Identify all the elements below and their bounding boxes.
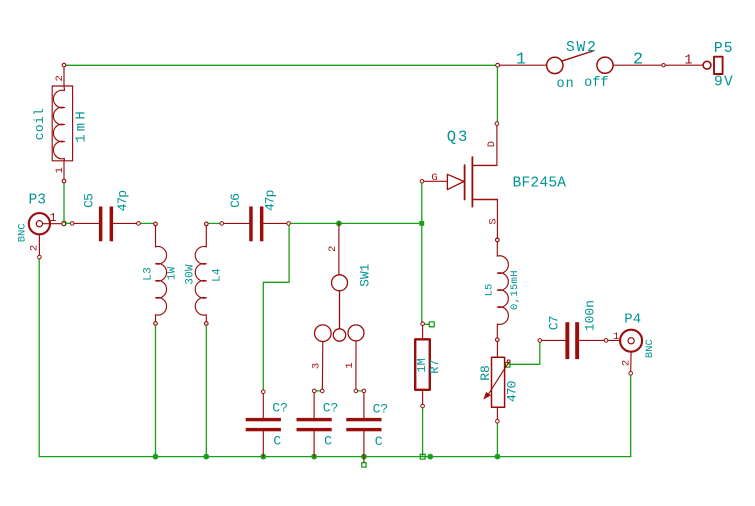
potentiometer R8 [483,342,510,424]
svg-text:Q3: Q3 [447,128,470,146]
svg-text:1: 1 [516,51,526,70]
node bus R7 end square [420,454,425,459]
svg-text:L3: L3 [142,267,154,281]
svg-text:C: C [324,434,332,449]
svg-text:BNC: BNC [644,339,656,358]
svg-text:1: 1 [49,211,56,225]
capacitor C? 2 [297,389,332,457]
svg-text:1: 1 [613,331,619,343]
svg-text:BF245A: BF245A [513,175,567,191]
node bus junction dot [427,454,433,460]
wire C6 to gate node [289,222,422,224]
inductor coil 1mH [52,63,72,183]
svg-text:9V: 9V [714,74,734,90]
wire ground bus [39,456,631,458]
wire node to R7 [421,223,423,322]
wire SW1 pin1 to cap3 [356,390,364,392]
svg-text:C6: C6 [228,194,243,208]
svg-text:2: 2 [28,245,40,251]
svg-text:R7: R7 [428,359,442,373]
svg-text:C: C [273,434,281,449]
svg-text:1: 1 [54,167,66,173]
svg-text:C: C [375,434,383,449]
wire L4 down [205,324,207,457]
wire C5 to L3 [139,222,156,224]
wire coil to P3 node [63,183,65,224]
node bus L3 junction [153,454,159,460]
svg-text:C7: C7 [546,316,561,330]
capacitor C5 [70,207,140,242]
svg-text:SW1: SW1 [358,263,373,287]
svg-text:1W: 1W [166,266,178,280]
wire R8 wiper to C7 [509,342,540,365]
svg-text:2: 2 [633,51,643,70]
connector P3 BNC [29,213,66,259]
svg-text:47p: 47p [262,190,277,211]
svg-text:C5: C5 [82,194,97,208]
svg-text:30W: 30W [184,264,196,285]
capacitor C6 [220,207,290,242]
node wiper square [505,363,510,368]
svg-text:L5: L5 [483,284,495,297]
inductor L4 [195,222,208,325]
wire SW1 pin3 to cap2 [314,390,322,392]
capacitor C? 1 [246,390,281,457]
wire R8 down [496,423,498,457]
svg-text:C?: C? [272,400,288,415]
transistor Q3 BF245A JFET [420,122,499,242]
wire P3 pin2 down [38,258,40,457]
node bus cap3 junction [361,454,367,460]
svg-text:P5: P5 [714,41,734,57]
svg-text:BNC: BNC [16,223,28,242]
wire gate vertical [421,181,423,223]
resistor R7 [415,322,430,408]
svg-text:1: 1 [684,54,692,69]
svg-text:C?: C? [323,401,339,416]
svg-text:D: D [486,141,498,147]
node cap3 dangling square [362,463,366,467]
connector P5 9V [665,57,722,74]
node bus L4 junction [203,454,209,460]
svg-text:2: 2 [327,246,339,252]
wire L4 to C6 [206,222,222,224]
svg-text:0,15mH: 0,15mH [509,270,521,310]
svg-text:P3: P3 [29,193,47,209]
capacitor C7 [538,322,608,359]
wire to Q3 drain [496,65,498,122]
svg-text:2: 2 [54,75,66,81]
node coil-P3-C5 junction [61,221,67,227]
svg-text:2: 2 [621,360,633,366]
switch SW2 [496,51,666,74]
svg-text:coil: coil [32,108,47,140]
connector P4 BNC [608,330,642,375]
wire P3 pin1 to C5 [64,222,72,224]
svg-text:G: G [431,172,437,184]
svg-text:C?: C? [373,401,389,416]
svg-text:off: off [584,76,608,91]
svg-text:470: 470 [504,381,519,402]
svg-text:47p: 47p [115,191,130,212]
wire top bus [65,64,497,66]
wire P4 pin2 down [630,375,632,457]
node bus R8 junction [495,454,501,460]
svg-text:1: 1 [344,362,356,368]
svg-text:1M: 1M [415,358,429,372]
svg-text:SW2: SW2 [566,40,598,56]
inductor L5 [496,238,509,341]
svg-text:P4: P4 [624,312,641,328]
capacitor C? 3 [346,389,381,462]
node gate junction [419,221,424,226]
inductor L3 [154,222,167,325]
node R7 top square [429,322,434,327]
svg-text:1mH: 1mH [73,108,89,143]
wire R7 down [422,408,424,457]
svg-text:S: S [488,218,500,224]
wire L3 down [155,324,157,457]
node SW1 tap junction [336,221,342,227]
svg-text:L4: L4 [211,268,223,282]
wire C6 node to cap1 [263,223,289,391]
node bus cap2 junction [311,454,317,460]
svg-text:on: on [556,77,574,92]
svg-text:3: 3 [310,363,322,369]
svg-text:100n: 100n [583,300,598,331]
switch SW1 [315,223,365,392]
node bus cap1 junction [260,454,266,460]
wire R7 stub [422,323,429,325]
svg-text:R8: R8 [478,365,493,381]
